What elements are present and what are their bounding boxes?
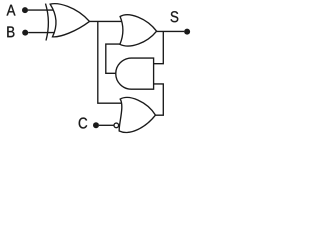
- or-gate U2 body: [120, 15, 157, 46]
- terminal dot A: [22, 7, 28, 13]
- terminal dot B: [22, 30, 28, 36]
- label S: [171, 11, 179, 22]
- wire XOR output to OR1 upper input: [90, 20, 123, 22]
- wire S output: [157, 30, 185, 32]
- terminal dot C: [93, 122, 99, 128]
- terminal dot S: [184, 29, 190, 35]
- wire A input: [28, 9, 53, 11]
- wire branch from XOR output down to OR2 upper input: [98, 21, 122, 103]
- xor-gate U1 input arc: [46, 4, 49, 41]
- label B: [7, 26, 14, 37]
- wire C input: [99, 124, 114, 126]
- inverter bubble on OR2 lower input: [114, 123, 119, 128]
- and-gate U3 body (mirrored, inputs on right): [116, 58, 154, 89]
- xor-gate U1 body: [50, 4, 89, 37]
- label C: [79, 118, 88, 129]
- wire AND output feedback to OR1 lower input: [106, 44, 121, 73]
- wire B input: [28, 32, 54, 34]
- wire OR2 output up to AND lower input: [154, 84, 164, 115]
- wire S branch down to AND upper input: [154, 31, 164, 63]
- or-gate U4 body: [119, 97, 155, 132]
- label A: [7, 5, 16, 16]
